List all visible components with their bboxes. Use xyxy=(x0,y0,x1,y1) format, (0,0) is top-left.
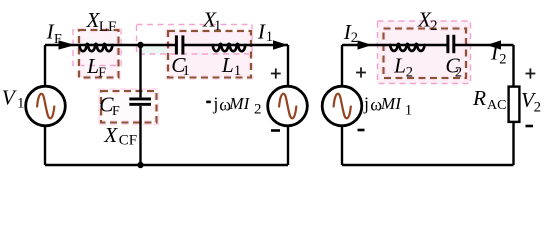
svg-text:I: I xyxy=(257,19,266,43)
svg-text:1: 1 xyxy=(266,29,273,45)
svg-text:MI: MI xyxy=(380,94,402,113)
svg-text:1: 1 xyxy=(405,102,413,118)
svg-text:2: 2 xyxy=(499,51,506,67)
svg-text:2: 2 xyxy=(534,100,541,116)
svg-text:L: L xyxy=(393,54,406,78)
svg-text:AC: AC xyxy=(487,98,506,113)
svg-text:X: X xyxy=(103,123,118,147)
svg-text:MI: MI xyxy=(228,94,250,113)
svg-text:2: 2 xyxy=(351,30,358,46)
svg-text:1: 1 xyxy=(183,63,190,79)
svg-text:2: 2 xyxy=(406,65,413,81)
svg-text:1: 1 xyxy=(234,63,241,79)
svg-text:R: R xyxy=(472,86,486,110)
svg-text:1: 1 xyxy=(214,18,221,34)
svg-text:F: F xyxy=(54,32,62,47)
svg-text:j: j xyxy=(212,93,218,113)
svg-text:F: F xyxy=(112,104,120,119)
svg-text:I: I xyxy=(490,41,499,65)
svg-text:CF: CF xyxy=(119,133,137,149)
svg-text:j: j xyxy=(363,93,369,113)
svg-text:2: 2 xyxy=(430,18,437,34)
svg-text:F: F xyxy=(98,65,106,80)
svg-text:2: 2 xyxy=(254,102,262,118)
svg-text:L: L xyxy=(221,53,234,77)
svg-text:L: L xyxy=(86,54,99,78)
svg-text:LF: LF xyxy=(99,19,117,35)
svg-text:1: 1 xyxy=(17,95,25,111)
svg-text:2: 2 xyxy=(455,65,462,81)
